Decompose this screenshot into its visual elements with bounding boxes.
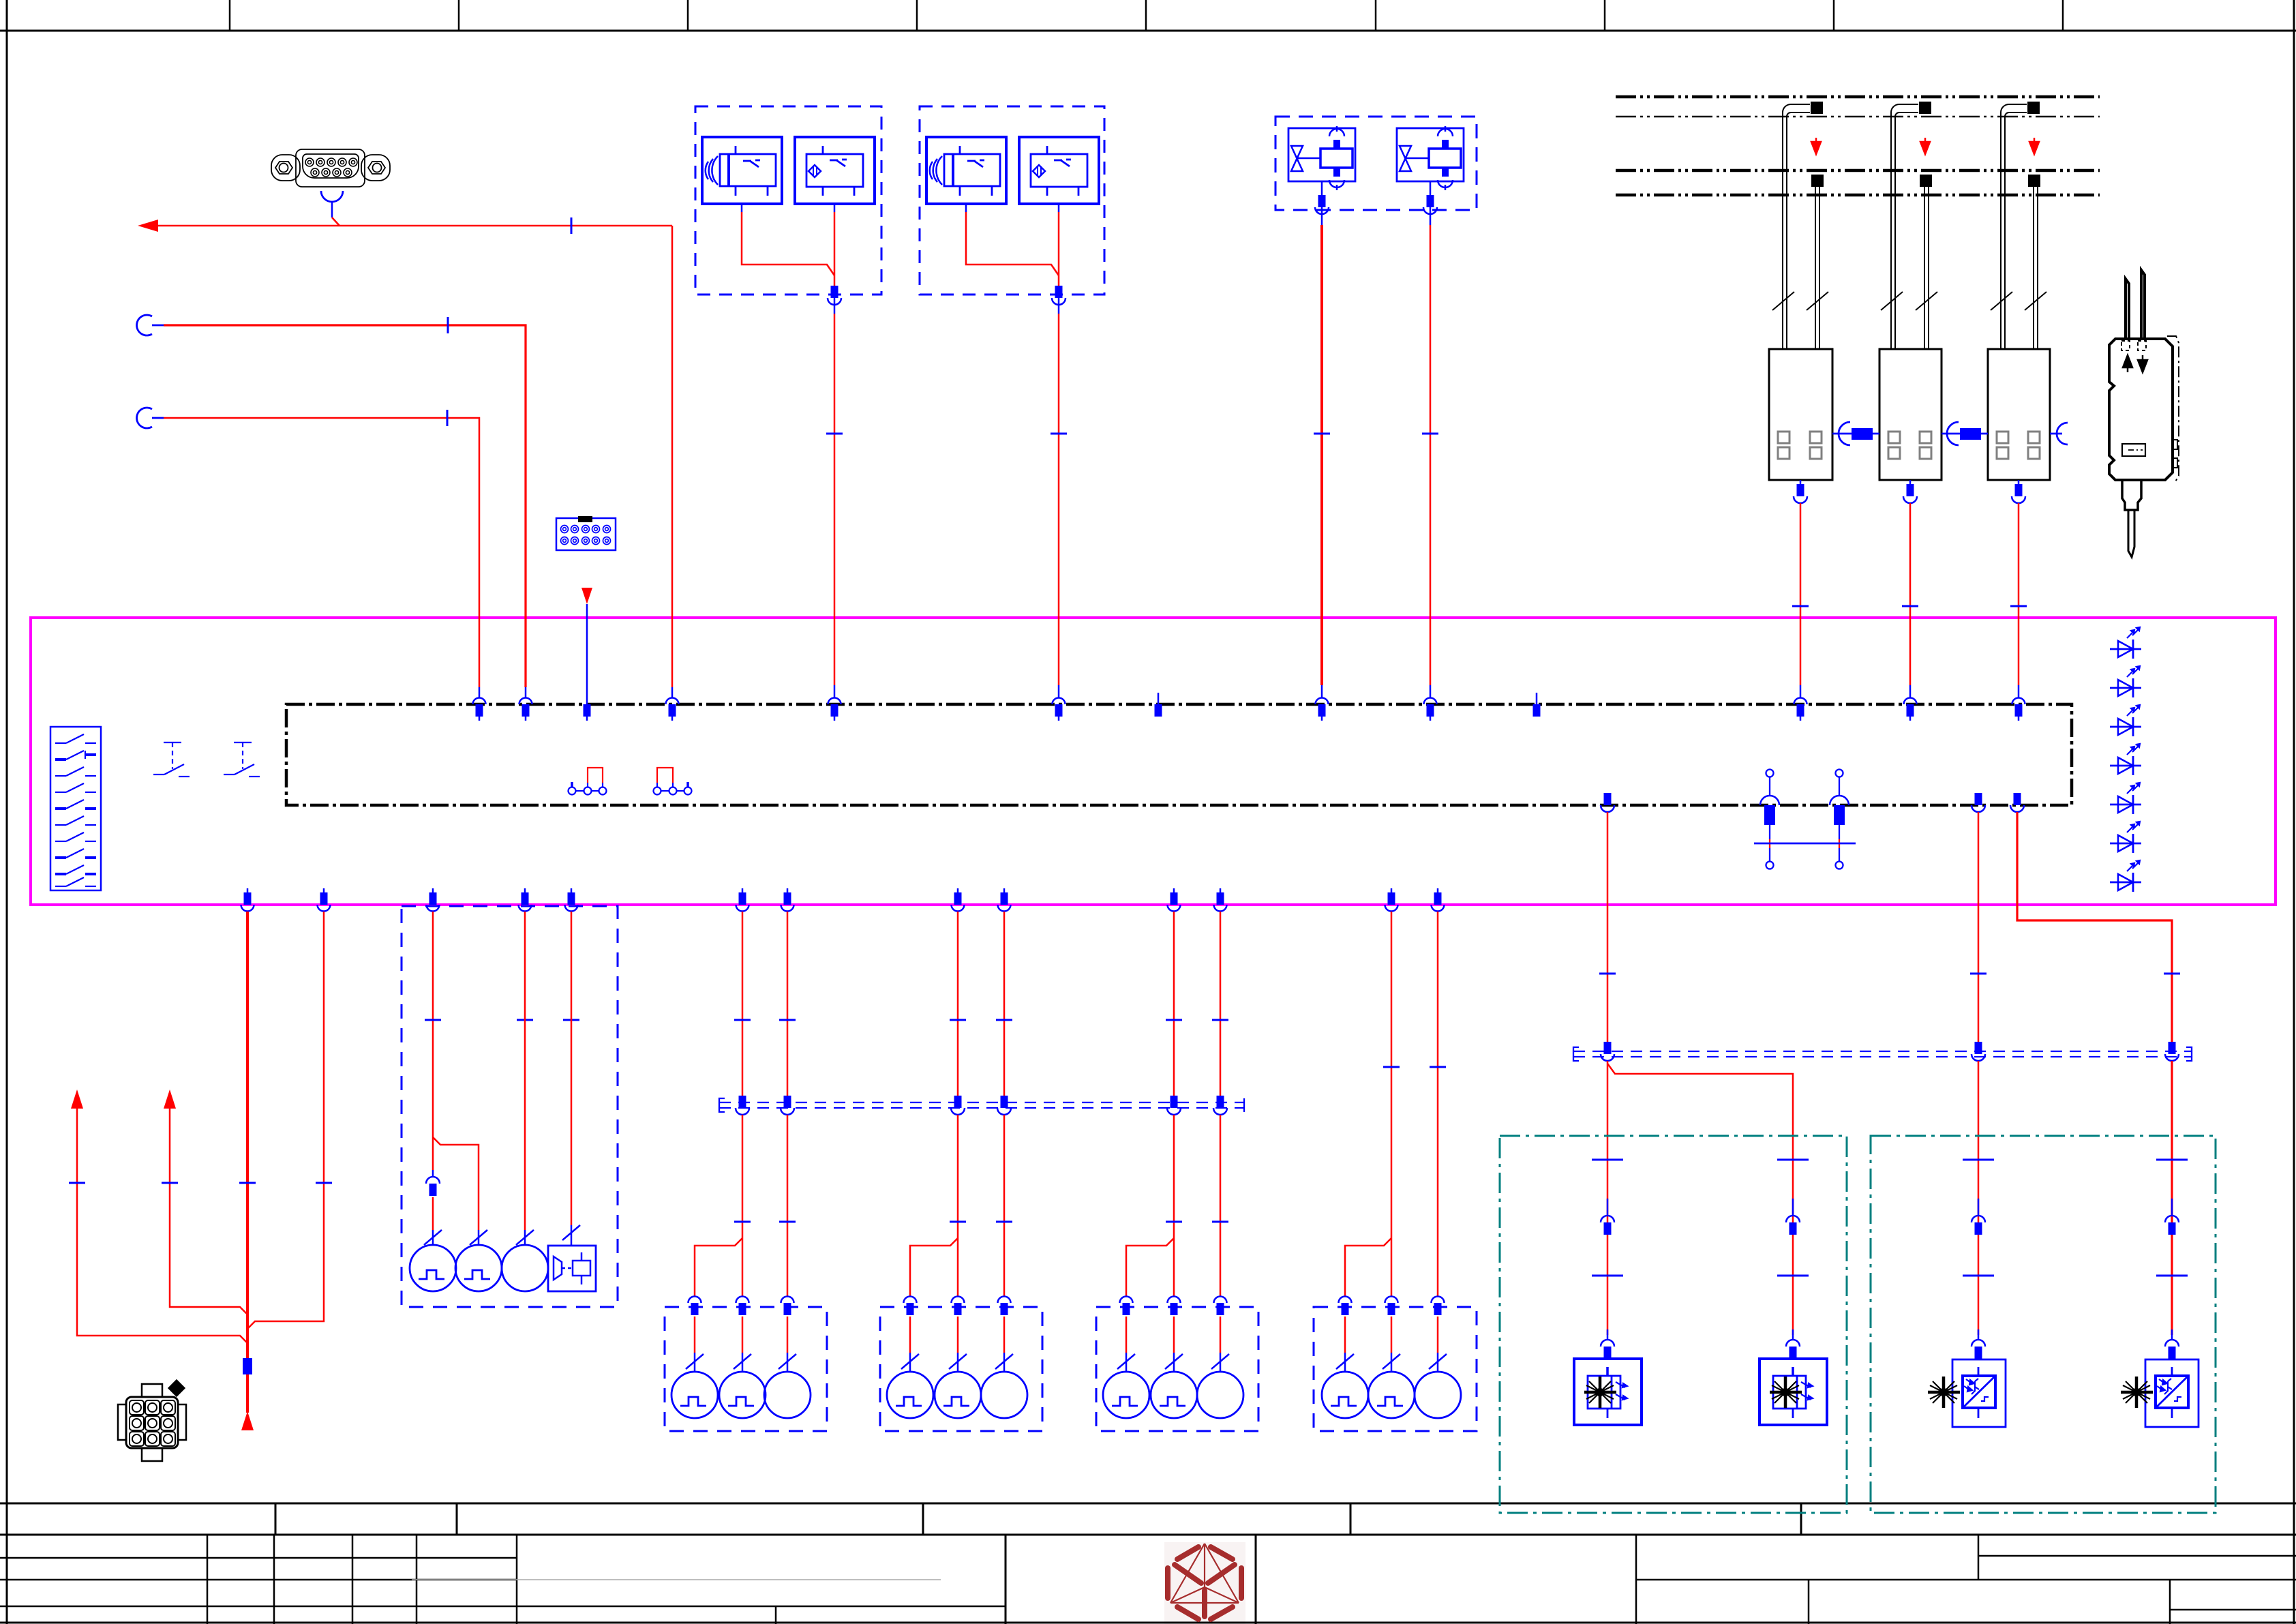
- D2 blue tail: [1391, 1353, 1393, 1372]
- lamp plug C1: [1120, 1297, 1133, 1316]
- frame zone tick 3: [687, 0, 689, 31]
- lamp plug D2: [1385, 1297, 1398, 1316]
- Y1 blue tail: [1321, 685, 1323, 698]
- frame zone tick 4: [916, 0, 918, 31]
- E3 wire lower: [1978, 1061, 1980, 1335]
- tick B2 lower: [950, 1221, 966, 1222]
- tick on W2: [316, 1182, 332, 1184]
- harness connector X3 (9 pin): [118, 1381, 186, 1461]
- signal lamp A3: [764, 1372, 811, 1418]
- DB9 diagnostic connector X1: [271, 149, 390, 187]
- power branch wire W1: [246, 912, 249, 1358]
- slash B3: [995, 1354, 1013, 1369]
- indicator lamp H3: [502, 1245, 548, 1291]
- H1 lower wire: [432, 1197, 434, 1230]
- long tick E1 lower: [1592, 1275, 1623, 1276]
- H4 blue tail: [571, 1225, 573, 1246]
- Y1 pigtail: [1321, 181, 1323, 196]
- bus plug B2: [951, 1096, 965, 1115]
- signal lamp C3: [1197, 1372, 1243, 1418]
- CAN socket B: [137, 408, 152, 428]
- C1 blue tail: [1126, 1353, 1128, 1372]
- off-page wire W4: [77, 1108, 247, 1343]
- slash H1: [424, 1230, 442, 1245]
- slash A3: [779, 1354, 796, 1369]
- group A wire 3: [787, 912, 789, 1096]
- Y2 wire: [1430, 225, 1432, 685]
- signal lamp C1: [1103, 1372, 1149, 1418]
- title block right row line a: [1978, 1555, 2296, 1557]
- tick on K3 wire: [2010, 605, 2027, 607]
- status LED D7: [2110, 860, 2141, 892]
- ECU output plug E3: [1972, 793, 1985, 812]
- group B wire 3 lower: [1003, 1115, 1006, 1296]
- ECU input connector pin 6: [1053, 698, 1066, 721]
- fiber amplifier sensor B5: [2109, 270, 2179, 557]
- feed arrow K1 (red): [1811, 138, 1821, 154]
- branch junction to C1: [1126, 1238, 1174, 1296]
- K3 wire: [2018, 503, 2020, 685]
- limit switch S3: [224, 742, 260, 777]
- C1 lower wire: [1126, 1317, 1128, 1353]
- service connector X2 (10 pin): [556, 516, 616, 550]
- K2 wire: [1909, 503, 1912, 685]
- ECU output plug E4: [2010, 793, 2024, 812]
- off-page arrow left: [138, 220, 158, 232]
- lamp plug A2: [736, 1297, 749, 1316]
- drawing frame top band line: [0, 30, 2296, 32]
- frame zone tick 9: [2062, 0, 2064, 31]
- light barrier column K1: [1769, 102, 1832, 480]
- tick H4: [563, 1019, 579, 1021]
- slash B1: [901, 1354, 919, 1369]
- group D wire 2: [1391, 912, 1393, 1296]
- revision table vertical 1: [207, 1535, 209, 1624]
- group B wire 2 lower: [957, 1115, 959, 1296]
- proximity sensor B4: [1019, 137, 1099, 204]
- cabinet exit plug 12: [1385, 888, 1398, 912]
- title block center vertical: [1005, 1535, 1007, 1624]
- slash B2: [949, 1354, 967, 1369]
- group A wire 3 lower: [787, 1115, 789, 1296]
- lamp plug C2: [1168, 1297, 1181, 1316]
- D3 blue tail: [1437, 1353, 1439, 1372]
- status LED D2: [2110, 666, 2141, 697]
- title block right vertical 3: [2169, 1580, 2171, 1624]
- wire kink to diag bus: [332, 217, 339, 226]
- company logo hexagon: [1168, 1544, 1241, 1619]
- harness tick on diag bus: [571, 217, 573, 234]
- CAN socket A stub: [152, 325, 164, 327]
- Y2 blue tail: [1430, 685, 1432, 698]
- group C wire 3 lower: [1220, 1115, 1222, 1296]
- title block right row line c: [2170, 1609, 2296, 1611]
- C2 lower wire: [1173, 1317, 1175, 1353]
- lamp group C enclosure: [1096, 1307, 1258, 1431]
- title block right row line b: [1636, 1579, 2296, 1581]
- title row divider c: [922, 1503, 924, 1535]
- ECU input connector pin 1: [473, 698, 486, 721]
- proximity sensor B2: [795, 137, 875, 204]
- K1 output plug: [1794, 480, 1807, 503]
- K2 output plug: [1903, 480, 1917, 503]
- panel wire H1: [432, 912, 434, 1170]
- panel wire H3: [524, 912, 526, 1230]
- signal lamp D2: [1368, 1372, 1415, 1418]
- revision table faint row: [412, 1579, 941, 1580]
- E4 wire lower: [2171, 1061, 2173, 1335]
- group A wire 2 lower: [742, 1115, 744, 1296]
- bus plug A2: [736, 1096, 749, 1115]
- long tick E4 lower: [2156, 1275, 2188, 1276]
- signal lamp B1: [887, 1372, 933, 1418]
- K2 blue tail: [1909, 685, 1912, 698]
- cabinet exit plug 6: [736, 888, 749, 912]
- signal lamp B2: [935, 1372, 981, 1418]
- long tick E4: [2156, 1159, 2188, 1160]
- mid connector E3: [1972, 1199, 1985, 1235]
- A3 blue tail: [787, 1353, 789, 1372]
- slash A1: [686, 1354, 704, 1369]
- tick on Y1 wire: [1314, 433, 1330, 434]
- frame zone tick 6: [1375, 0, 1377, 31]
- lamp plug B2: [952, 1297, 965, 1316]
- A1 lower wire: [694, 1317, 696, 1353]
- title block right vertical 2: [1808, 1580, 1810, 1624]
- tick D2: [1383, 1066, 1400, 1068]
- B4 wire down: [1058, 212, 1060, 286]
- group B wire 3: [1003, 912, 1006, 1096]
- group C wire 3: [1220, 912, 1222, 1096]
- B1 blue tail: [909, 1353, 911, 1372]
- link plug K1-K2: [1852, 428, 1873, 440]
- tick A3 lower: [779, 1221, 796, 1222]
- ECU input connector pin 4: [666, 698, 679, 721]
- lamp group D enclosure: [1314, 1307, 1477, 1431]
- A2 blue tail: [742, 1353, 744, 1372]
- status LED D1: [2110, 627, 2141, 659]
- Y1 plug: [1315, 195, 1329, 225]
- K3 output plug: [2012, 480, 2025, 503]
- revision table row 1: [0, 1557, 517, 1559]
- E1 wire: [1607, 812, 1609, 1042]
- C3 lower wire: [1220, 1317, 1222, 1353]
- DIP switch bank S1: [50, 727, 101, 890]
- C2 blue tail: [1173, 1353, 1175, 1372]
- frame zone tick 8: [1833, 0, 1835, 31]
- lamp plug A3: [781, 1297, 794, 1316]
- B3 lower wire: [1003, 1317, 1006, 1353]
- K1 wire: [1800, 503, 1802, 685]
- B2 pigtail: [834, 204, 836, 212]
- A3 lower wire: [787, 1317, 789, 1353]
- revision table vertical 5: [516, 1535, 518, 1624]
- frame zone tick 1: [229, 0, 231, 31]
- status LED D4: [2110, 744, 2141, 775]
- frame left border: [6, 0, 8, 1624]
- DB9 pigtail arc: [321, 191, 343, 202]
- tick A2 lower: [734, 1221, 751, 1222]
- A2 lower wire: [742, 1317, 744, 1353]
- sensor group 2 enclosure (dashed): [920, 106, 1104, 295]
- frame zone tick 2: [458, 0, 460, 31]
- receiver zone enclosure (teal dash-dot): [1871, 1136, 2216, 1513]
- ECU spare pin 10: [1533, 693, 1541, 717]
- link lead K3 end: [2050, 433, 2062, 435]
- group C wire 2: [1173, 912, 1175, 1096]
- lamp plug D3: [1432, 1297, 1445, 1316]
- receiver plug E3: [1972, 1329, 1985, 1359]
- conveyor rail 3: [1616, 169, 2100, 172]
- programming link P2: [1830, 770, 1849, 869]
- tick A3: [779, 1019, 796, 1021]
- title row divider e: [1800, 1503, 1802, 1535]
- tick on CAN wire B: [447, 410, 449, 426]
- barrier bus plug E3: [1972, 1042, 1985, 1061]
- ECU main module boundary (black dash-dot): [286, 704, 2072, 805]
- bus plug A3: [781, 1096, 794, 1115]
- conveyor rail 2: [1616, 116, 2100, 118]
- cabinet exit plug 11: [1214, 888, 1227, 912]
- ultrasonic sensor B1: [702, 137, 782, 204]
- H3 blue tail: [524, 1230, 526, 1245]
- ECU input connector pin 2: [519, 698, 532, 721]
- cabinet exit plug 2: [318, 888, 331, 912]
- B2 blue tail: [957, 1353, 959, 1372]
- mid connector E2: [1786, 1199, 1800, 1235]
- frame zone tick 5: [1145, 0, 1147, 31]
- signal lamp dashed bus: [719, 1098, 1244, 1112]
- D1 lower wire: [1344, 1317, 1346, 1353]
- off-page arrow down to X2 wire: [581, 588, 592, 604]
- group1 trunk wire: [834, 314, 836, 685]
- programming link bar: [1754, 843, 1856, 845]
- D3 lower wire: [1437, 1317, 1439, 1353]
- valve group enclosure (dashed): [1275, 117, 1477, 210]
- group A wire 2: [742, 912, 744, 1096]
- frame zone tick 7: [1604, 0, 1606, 31]
- frame right border: [2293, 0, 2295, 1624]
- B3 pigtail: [965, 204, 967, 212]
- bus plug C3: [1213, 1096, 1227, 1115]
- bus plug B3: [997, 1096, 1011, 1115]
- group1 trunk blue tail: [834, 685, 836, 698]
- B3 wire to junction: [966, 212, 1059, 275]
- group B wire 2: [957, 912, 959, 1096]
- CAN wire A blue tail: [525, 687, 527, 698]
- W1 lower wire: [246, 1374, 249, 1413]
- tick B3: [996, 1019, 1012, 1021]
- Y2 plug: [1423, 195, 1437, 225]
- cabinet exit plug 10: [1168, 888, 1181, 912]
- lamp plug D1: [1339, 1297, 1352, 1316]
- light barrier bus (dashed pair): [1573, 1047, 2192, 1061]
- slash C1: [1117, 1354, 1135, 1369]
- revision table vertical 3: [352, 1535, 354, 1624]
- indicator lamp H2 (flashing): [455, 1245, 502, 1291]
- long tick E3: [1963, 1159, 1994, 1160]
- cabinet exit plug 3: [427, 888, 440, 912]
- slash D2: [1383, 1354, 1400, 1369]
- lamp plug A1: [689, 1297, 701, 1316]
- operator panel enclosure (dashed): [402, 906, 618, 1307]
- branch junction to A1: [695, 1238, 742, 1296]
- tick on group2 trunk: [1051, 433, 1067, 434]
- signal lamp D3: [1415, 1372, 1461, 1418]
- slash C2: [1165, 1354, 1183, 1369]
- light barrier column K3: [1988, 102, 2050, 480]
- piezo buzzer H4: [548, 1246, 596, 1291]
- Y1 wire: [1320, 225, 1323, 685]
- tick on group1 trunk: [826, 433, 843, 434]
- solenoid valve Y2: [1397, 126, 1464, 190]
- slash H4: [562, 1225, 580, 1240]
- tick E4: [2164, 973, 2180, 974]
- off-page arrow W1 bottom: [241, 1411, 254, 1430]
- long tick E2: [1777, 1159, 1809, 1160]
- status LED D5: [2110, 783, 2141, 814]
- tick on Y2 wire: [1422, 433, 1438, 434]
- panel wire H4: [571, 912, 573, 1225]
- tick C2: [1166, 1019, 1182, 1021]
- tick A2: [734, 1019, 751, 1021]
- cabinet exit plug 1: [241, 888, 254, 912]
- sensor group 1 enclosure (dashed): [695, 106, 881, 295]
- CAN wire A: [164, 325, 526, 687]
- status LED D3: [2110, 705, 2141, 736]
- B1 pigtail: [741, 204, 743, 212]
- off-page arrow W3: [164, 1089, 176, 1109]
- diag bus drop wire: [671, 226, 674, 687]
- lamp plug B3: [998, 1297, 1011, 1316]
- group D wire 3: [1437, 912, 1439, 1296]
- H1 blue tail: [432, 1230, 434, 1245]
- E1 wire lower: [1607, 1061, 1609, 1335]
- link lead K2-K3: [1942, 433, 1988, 435]
- tick on K1 wire: [1792, 605, 1809, 607]
- diagnostic bus wire (red, to off-page left): [155, 225, 672, 227]
- D2 lower wire: [1391, 1317, 1393, 1353]
- CAN socket A: [137, 315, 152, 335]
- slash H2: [470, 1230, 487, 1245]
- ECU output plug E1: [1601, 793, 1614, 812]
- B2 lower wire: [957, 1317, 959, 1353]
- CAN wire B: [164, 418, 479, 687]
- receiver plug E4: [2165, 1329, 2179, 1359]
- title row divider d: [1350, 1503, 1352, 1535]
- link plug K2-K3: [1960, 428, 1981, 440]
- solenoid valve Y1: [1288, 126, 1355, 190]
- cabinet exit plug 7: [781, 888, 794, 912]
- ultrasonic sensor B3: [926, 137, 1006, 204]
- power branch wire W2: [247, 912, 324, 1329]
- tick on W4: [69, 1182, 85, 1184]
- ECU input connector pin 9: [1424, 698, 1437, 721]
- ECU input connector pin 12: [1904, 698, 1917, 721]
- cabinet exit plug 8: [952, 888, 965, 912]
- group2 plug: [1052, 286, 1066, 314]
- title block row line: [0, 1606, 1006, 1608]
- E3 wire: [1978, 812, 1980, 1042]
- title block second line: [0, 1534, 2296, 1536]
- D1 blue tail: [1344, 1353, 1346, 1372]
- link socket K2-K3: [1947, 422, 1959, 445]
- tick E3: [1970, 973, 1987, 974]
- indicator lamp H1 (flashing): [410, 1245, 456, 1291]
- conveyor rail 4: [1616, 194, 2100, 197]
- E4 wire jog right: [2017, 812, 2172, 1042]
- diag drop blue tail: [671, 687, 674, 698]
- group2 trunk wire: [1058, 314, 1060, 685]
- signal lamp B3: [981, 1372, 1027, 1418]
- programming link P1: [1760, 770, 1779, 869]
- tick D3: [1430, 1066, 1446, 1068]
- light barrier receiver G3: [1928, 1359, 2006, 1427]
- tick C2 lower: [1166, 1221, 1182, 1222]
- slash A2: [734, 1354, 751, 1369]
- long tick E3 lower: [1963, 1275, 1994, 1276]
- ECU input connector pin 5: [828, 698, 841, 721]
- ECU input connector pin 13: [2012, 698, 2025, 721]
- tick C3 lower: [1212, 1221, 1228, 1222]
- conveyor rail 1 (dash-dot-dot): [1616, 95, 2100, 99]
- branch junction to D1: [1345, 1238, 1391, 1296]
- branch junction to H2: [433, 1137, 479, 1230]
- C3 blue tail: [1220, 1353, 1222, 1372]
- ECU input connector pin 8: [1316, 698, 1329, 721]
- barrier bus plug E1: [1601, 1042, 1614, 1061]
- lamp group B enclosure: [880, 1307, 1042, 1431]
- tick on W3: [162, 1182, 178, 1184]
- signal lamp A2: [719, 1372, 766, 1418]
- signal lamp D1: [1322, 1372, 1368, 1418]
- cabinet exit plug 9: [998, 888, 1011, 912]
- tick H3: [517, 1019, 533, 1021]
- CAN socket B stub: [152, 417, 164, 419]
- light barrier emitter G2: [1759, 1359, 1827, 1425]
- feed arrow K2 (red): [1920, 138, 1930, 154]
- tick E1: [1599, 973, 1616, 974]
- DB9 pigtail wire: [331, 202, 333, 217]
- B4 pigtail: [1058, 204, 1060, 212]
- K1 blue tail: [1800, 685, 1802, 698]
- A1 blue tail: [694, 1353, 696, 1372]
- inline splice on W1: [243, 1358, 252, 1374]
- light barrier emitter G1: [1574, 1359, 1642, 1425]
- ECU input connector pin 11: [1794, 698, 1807, 721]
- light barrier receiver G4: [2121, 1359, 2199, 1427]
- link socket K1-K2: [1839, 422, 1850, 445]
- lamp group A enclosure: [665, 1307, 827, 1431]
- config jumper J2: [654, 768, 692, 795]
- link lead K1-K2: [1832, 433, 1879, 435]
- branch junction to B1: [910, 1238, 958, 1296]
- cabinet exit plug 13: [1432, 888, 1445, 912]
- off-page arrow W4: [71, 1089, 83, 1109]
- slash D1: [1336, 1354, 1354, 1369]
- config jumper J1: [569, 768, 607, 795]
- feed arrow K3 (red): [2029, 138, 2039, 154]
- title block logo-right vertical: [1255, 1535, 1257, 1624]
- slash C3: [1211, 1354, 1229, 1369]
- B1 lower wire: [909, 1317, 911, 1353]
- B1 wire to junction: [742, 212, 834, 275]
- tick on K2 wire: [1902, 605, 1918, 607]
- X2 signal wire (blue): [586, 604, 588, 704]
- limit switch S2: [153, 742, 190, 777]
- tick B3 lower: [996, 1221, 1012, 1222]
- tick on W1: [239, 1182, 256, 1184]
